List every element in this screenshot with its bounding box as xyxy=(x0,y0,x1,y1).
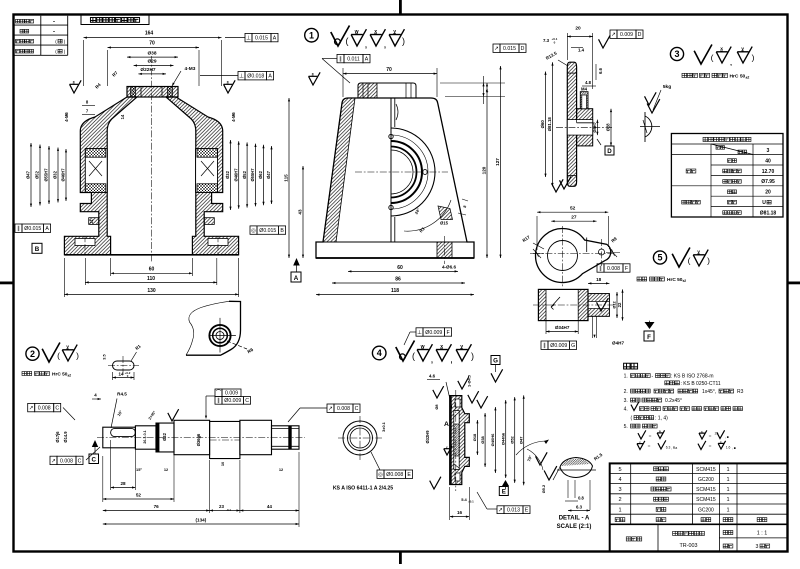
svg-text:=: = xyxy=(709,445,712,450)
svg-text:1: 1 xyxy=(309,30,314,40)
svg-text:A: A xyxy=(444,421,449,428)
svg-text:(: ( xyxy=(688,256,691,266)
svg-text:E: E xyxy=(407,472,411,478)
svg-text:◎: ◎ xyxy=(251,228,256,234)
svg-text:Ø32: Ø32 xyxy=(225,170,230,178)
svg-text:: 1, 4): : 1, 4) xyxy=(655,416,668,422)
svg-text:127: 127 xyxy=(495,158,500,166)
svg-text:Ø0.008: Ø0.008 xyxy=(386,472,403,478)
svg-text:6.3: 6.3 xyxy=(576,505,583,510)
svg-text:): ) xyxy=(76,351,79,361)
svg-text:1 : 1: 1 : 1 xyxy=(757,531,768,537)
svg-text:TR-003: TR-003 xyxy=(680,543,698,549)
svg-text:60: 60 xyxy=(397,265,403,271)
svg-text:15°: 15° xyxy=(136,467,142,472)
svg-text:G: G xyxy=(493,358,498,365)
svg-text:Ø32: Ø32 xyxy=(162,432,167,440)
svg-text:1: 1 xyxy=(618,507,621,513)
svg-text:U: U xyxy=(762,200,766,206)
svg-text:52: 52 xyxy=(570,206,576,212)
svg-text:20: 20 xyxy=(765,190,771,196)
svg-text:D: D xyxy=(521,46,525,52)
svg-text:Ø60: Ø60 xyxy=(540,120,545,129)
svg-text:0.009: 0.009 xyxy=(620,32,633,38)
svg-text:Ø14.9: Ø14.9 xyxy=(63,431,68,443)
svg-text:, ■: , ■ xyxy=(732,446,736,450)
svg-text:Ø55H7: Ø55H7 xyxy=(250,168,255,182)
svg-text:SCM415: SCM415 xyxy=(696,487,716,493)
svg-text:Ø8: Ø8 xyxy=(434,404,439,410)
svg-text:6.3: 6.3 xyxy=(666,446,671,450)
svg-text:Ø0.018: Ø0.018 xyxy=(247,74,264,80)
svg-text:120: 120 xyxy=(482,166,487,174)
svg-text:Ø4H7: Ø4H7 xyxy=(612,341,624,346)
svg-text:A: A xyxy=(268,74,272,80)
svg-text:±2: ±2 xyxy=(683,279,687,283)
svg-text:1: 1 xyxy=(726,497,729,503)
svg-text:0.008: 0.008 xyxy=(337,406,350,412)
svg-text:1: 1 xyxy=(726,477,729,483)
svg-text:4-M3: 4-M3 xyxy=(185,66,196,72)
svg-text:,: , xyxy=(451,358,453,365)
svg-text:Ø47: Ø47 xyxy=(266,170,271,178)
svg-text:DETAIL - A: DETAIL - A xyxy=(559,516,590,522)
svg-text:20: 20 xyxy=(575,26,581,32)
svg-text:Ø0.009: Ø0.009 xyxy=(224,398,241,404)
svg-text:Ø40H6: Ø40H6 xyxy=(490,433,495,446)
svg-text:Ø8H7: Ø8H7 xyxy=(592,121,597,132)
svg-text:26.3-0.1: 26.3-0.1 xyxy=(143,430,147,443)
svg-text:KS A ISO 6411-1 A 2/4.25: KS A ISO 6411-1 A 2/4.25 xyxy=(333,486,393,492)
svg-text:86: 86 xyxy=(395,276,401,282)
svg-text:3: 3 xyxy=(756,544,759,550)
svg-text:Ø22H7: Ø22H7 xyxy=(140,67,156,73)
svg-text:1.6: 1.6 xyxy=(726,446,731,450)
svg-text:-: - xyxy=(53,29,55,35)
svg-text:C: C xyxy=(55,406,59,412)
svg-text:A: A xyxy=(45,226,49,232)
svg-text:22: 22 xyxy=(617,302,622,307)
svg-text:3: 3 xyxy=(767,148,770,154)
svg-text:⌒: ⌒ xyxy=(216,390,222,397)
svg-text:(: ( xyxy=(412,351,415,361)
svg-text:∥: ∥ xyxy=(17,225,20,232)
svg-text:0.8: 0.8 xyxy=(578,496,584,501)
svg-text:(134): (134) xyxy=(196,518,207,523)
svg-text:-: - xyxy=(53,19,55,25)
svg-text:10: 10 xyxy=(220,462,225,466)
svg-text:↗: ↗ xyxy=(494,46,499,52)
svg-text:Ø52: Ø52 xyxy=(509,435,514,443)
svg-text:Ø18: Ø18 xyxy=(472,433,477,441)
svg-text:7.3: 7.3 xyxy=(543,38,550,43)
svg-text:3±0.1: 3±0.1 xyxy=(381,421,386,432)
svg-text:31: 31 xyxy=(89,219,94,224)
svg-text:Ø0.015: Ø0.015 xyxy=(24,226,41,232)
svg-text:4-M6: 4-M6 xyxy=(64,112,69,122)
svg-text:F: F xyxy=(447,330,450,336)
svg-text:(: ( xyxy=(711,53,714,63)
svg-text:4.: 4. xyxy=(624,407,628,413)
svg-text:40: 40 xyxy=(765,158,771,164)
svg-text:1.: 1. xyxy=(624,374,628,380)
svg-text:B: B xyxy=(280,228,284,234)
svg-text:4-M6: 4-M6 xyxy=(231,112,236,122)
svg-text:∥: ∥ xyxy=(217,397,220,404)
svg-text:3.: 3. xyxy=(624,398,628,404)
svg-text:Ø34H7: Ø34H7 xyxy=(555,325,570,330)
svg-text:1: 1 xyxy=(726,507,729,513)
svg-text:3: 3 xyxy=(618,487,621,493)
svg-text:0.015: 0.015 xyxy=(255,36,268,42)
svg-text:SCM415: SCM415 xyxy=(696,467,716,473)
svg-text:52: 52 xyxy=(136,492,142,497)
svg-text:↗: ↗ xyxy=(51,458,56,464)
svg-text:): ) xyxy=(752,53,755,63)
svg-text:SCM415: SCM415 xyxy=(696,497,716,503)
svg-text:43: 43 xyxy=(298,209,303,215)
svg-text:↗: ↗ xyxy=(29,406,34,412)
svg-text:-0.1: -0.1 xyxy=(226,508,231,512)
svg-text:,: , xyxy=(730,60,732,67)
svg-text:∥: ∥ xyxy=(339,56,342,63)
svg-text:Ø62: Ø62 xyxy=(258,170,263,178)
svg-text:Ø7.95: Ø7.95 xyxy=(761,179,775,185)
svg-text:0.008: 0.008 xyxy=(38,406,51,412)
svg-text:Ø17j6: Ø17j6 xyxy=(55,431,60,443)
svg-text:5: 5 xyxy=(657,253,662,263)
svg-text:HrC 50: HrC 50 xyxy=(52,372,68,378)
svg-text:12.70: 12.70 xyxy=(762,169,775,175)
svg-text:D: D xyxy=(607,148,612,155)
svg-text:4: 4 xyxy=(618,477,621,483)
svg-text:Ø32H9: Ø32H9 xyxy=(425,430,430,444)
svg-text:M4: M4 xyxy=(581,87,588,92)
svg-text:G: G xyxy=(571,343,575,349)
svg-text:Ø15: Ø15 xyxy=(440,221,449,226)
svg-text:): ) xyxy=(471,351,474,361)
svg-text:⊥: ⊥ xyxy=(417,329,422,336)
svg-text:4-Ø6.6: 4-Ø6.6 xyxy=(442,265,456,270)
svg-text:16: 16 xyxy=(457,510,463,515)
svg-text:Ø52: Ø52 xyxy=(35,170,40,178)
svg-text:0.015: 0.015 xyxy=(503,46,516,52)
svg-text:2: 2 xyxy=(30,349,35,359)
svg-text:: KS B ISO 2768-m: : KS B ISO 2768-m xyxy=(671,374,714,380)
svg-text:Ø12: Ø12 xyxy=(612,300,617,308)
svg-text:: KS B 0250-CT11: : KS B 0250-CT11 xyxy=(681,381,721,387)
svg-text:6.6: 6.6 xyxy=(598,67,603,73)
svg-text:3.5: 3.5 xyxy=(102,353,107,359)
svg-text:A: A xyxy=(365,57,369,63)
svg-text:GC200: GC200 xyxy=(698,477,714,483)
svg-text:=: = xyxy=(649,434,652,439)
svg-text:1: 1 xyxy=(726,467,729,473)
svg-text:14: 14 xyxy=(119,372,124,377)
svg-text:0.2x45°: 0.2x45° xyxy=(665,398,682,404)
svg-text:130: 130 xyxy=(147,288,156,294)
svg-text:⊥: ⊥ xyxy=(246,35,251,42)
svg-text:5: 5 xyxy=(618,467,621,473)
svg-text:Ø36g6: Ø36g6 xyxy=(196,433,201,446)
svg-text:): ) xyxy=(402,36,405,46)
svg-text:Ø55H7: Ø55H7 xyxy=(44,168,49,182)
svg-text:A: A xyxy=(294,275,299,282)
svg-text:Ø81.18: Ø81.18 xyxy=(760,210,777,216)
svg-text:Ø46H7: Ø46H7 xyxy=(61,168,66,182)
svg-text:0.008: 0.008 xyxy=(60,458,73,464)
svg-text:C: C xyxy=(78,458,82,464)
svg-text:Ø0.015: Ø0.015 xyxy=(259,228,276,234)
svg-text:14: 14 xyxy=(120,114,125,119)
svg-text:⊥: ⊥ xyxy=(239,73,244,80)
svg-text:4: 4 xyxy=(377,348,382,358)
svg-text:5.: 5. xyxy=(624,424,628,430)
svg-text:Ø46H7: Ø46H7 xyxy=(233,168,238,182)
svg-text:HrC 50: HrC 50 xyxy=(730,74,746,80)
svg-text:Ø81.18: Ø81.18 xyxy=(547,117,552,132)
svg-text:3: 3 xyxy=(674,49,679,59)
svg-text:Ø28: Ø28 xyxy=(606,123,611,131)
svg-text:HrC 50: HrC 50 xyxy=(667,277,683,283)
svg-text:SCALE (2:1): SCALE (2:1) xyxy=(557,524,592,530)
svg-text:↗: ↗ xyxy=(611,32,616,38)
svg-text:↗: ↗ xyxy=(498,508,503,514)
svg-text:R3: R3 xyxy=(737,389,744,395)
svg-text:27: 27 xyxy=(571,215,577,221)
svg-text:2: 2 xyxy=(618,497,621,503)
svg-text:110: 110 xyxy=(147,276,155,282)
svg-text:Ø29: Ø29 xyxy=(147,59,156,65)
svg-text:18: 18 xyxy=(596,277,602,282)
svg-text:): ) xyxy=(707,256,710,266)
svg-text:6: 6 xyxy=(486,89,489,94)
svg-text:,: , xyxy=(431,358,433,365)
svg-text:=: = xyxy=(648,445,651,450)
svg-text:Ø38: Ø38 xyxy=(147,50,156,56)
svg-text:164: 164 xyxy=(145,31,154,37)
svg-text:118: 118 xyxy=(391,288,399,294)
svg-text:E: E xyxy=(525,508,529,514)
svg-text:70: 70 xyxy=(149,41,155,47)
svg-text:, ■: , ■ xyxy=(725,435,729,439)
svg-text:∥: ∥ xyxy=(543,342,546,349)
svg-text:0.009: 0.009 xyxy=(225,391,238,397)
svg-text:4.8: 4.8 xyxy=(585,80,591,85)
svg-text:Ø52: Ø52 xyxy=(242,170,247,178)
svg-text:1x45°,: 1x45°, xyxy=(702,389,716,395)
svg-text:,: , xyxy=(365,43,367,50)
svg-text:Ø0.009: Ø0.009 xyxy=(550,343,567,349)
svg-text:R4.5: R4.5 xyxy=(117,392,127,397)
svg-text:115: 115 xyxy=(284,174,289,182)
svg-text:60: 60 xyxy=(149,267,155,273)
svg-text:Ø32: Ø32 xyxy=(53,170,58,178)
svg-text:Ø38: Ø38 xyxy=(480,435,485,443)
svg-text:F: F xyxy=(625,266,628,272)
svg-text:23: 23 xyxy=(219,504,224,509)
svg-text:,: , xyxy=(384,43,386,50)
svg-text:C: C xyxy=(245,398,249,404)
svg-text:Ø0.009: Ø0.009 xyxy=(425,330,442,336)
svg-text:B: B xyxy=(35,246,40,253)
svg-text:2.: 2. xyxy=(624,389,628,395)
svg-text:F: F xyxy=(647,334,651,341)
svg-text:4.6: 4.6 xyxy=(429,374,436,379)
svg-text:A: A xyxy=(273,36,277,42)
svg-text:76: 76 xyxy=(154,504,160,509)
svg-text:0.008: 0.008 xyxy=(607,266,620,272)
svg-text:0.011: 0.011 xyxy=(347,57,360,63)
svg-text:70: 70 xyxy=(386,67,392,73)
svg-text:=: = xyxy=(709,434,712,439)
svg-text:±2: ±2 xyxy=(746,76,750,80)
svg-text:5kg: 5kg xyxy=(663,84,671,90)
svg-text:1.4: 1.4 xyxy=(578,48,585,53)
svg-text:(: ( xyxy=(57,351,60,361)
svg-text:(: ( xyxy=(346,36,349,46)
svg-text:5.4: 5.4 xyxy=(461,497,467,502)
svg-text:GC200: GC200 xyxy=(698,507,714,513)
svg-text:D: D xyxy=(638,32,642,38)
svg-text:44: 44 xyxy=(267,504,273,509)
svg-text:C: C xyxy=(92,456,97,463)
svg-text:∥: ∥ xyxy=(599,265,602,272)
svg-text:C: C xyxy=(355,406,359,412)
svg-text:Ø44h6: Ø44h6 xyxy=(500,432,505,445)
svg-text:±2: ±2 xyxy=(68,374,72,378)
svg-text:0.013: 0.013 xyxy=(507,508,520,514)
svg-text:Ø47: Ø47 xyxy=(518,436,523,444)
svg-text:◎: ◎ xyxy=(378,472,383,478)
svg-text:Ø47: Ø47 xyxy=(26,170,31,178)
svg-text:28: 28 xyxy=(120,481,126,486)
svg-text:↗: ↗ xyxy=(328,406,333,412)
svg-text:, Ra: , Ra xyxy=(671,446,677,450)
svg-text:E: E xyxy=(502,489,506,496)
svg-text:Ø5.2: Ø5.2 xyxy=(541,484,546,493)
svg-text:1: 1 xyxy=(726,487,729,493)
